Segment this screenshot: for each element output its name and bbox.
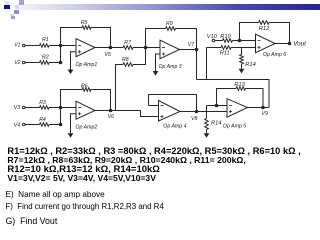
node junction R1/R2 [59,44,63,48]
wire V4 to R4 [25,124,39,126]
resistor R13 [236,87,245,91]
label V8 [191,116,197,122]
wire op-amp U2 noninverting input to ground [71,114,77,133]
svg-text:Op Amp 6: Op Amp 6 [263,52,286,58]
node V8 [195,110,199,114]
ground op-amp U2 [68,133,74,138]
op-amp U6 [256,34,276,53]
wire node V5 to R7 [111,47,124,49]
wire V6 riser to R8 [116,65,124,111]
svg-text:V3: V3 [14,105,20,111]
wire junction R4 up to junction R3 [60,108,62,125]
wire R1 to op-amp U1 inverting input [49,45,76,47]
ground R14 upper [239,69,245,74]
node junction R4 [59,123,63,127]
ground R14 lower [204,133,210,138]
label V4 [14,123,20,129]
wire junction up to feedback rail R5 [61,28,83,46]
svg-text:R4: R4 [39,117,46,123]
op-amp U3 [160,40,180,59]
wire R14 lower to ground [206,130,208,134]
label R9 [166,21,173,27]
label Op Amp 4 [163,123,186,129]
label R12 [259,26,270,32]
terminal V2 [23,61,26,64]
resistor R10 [223,39,233,43]
wire R12 to node Vout [269,23,290,44]
op-amp U5 [227,99,248,118]
wire R5 to output node V5 [91,28,111,48]
label R10 [220,34,231,40]
node junction R2 [59,61,63,65]
svg-text:R14: R14 [245,62,255,68]
svg-text:R5: R5 [81,20,88,26]
resistor R7 [123,46,133,50]
resistor R1 [40,44,49,48]
wire R2 to junction [49,62,61,64]
node V9 [261,106,265,110]
wire op-amp U2 output to node V6 [95,110,111,112]
terminal V4 [23,123,26,126]
resistor R8 [123,63,133,67]
label V6 [108,114,114,120]
label V3 [14,105,20,111]
wire op-amp U3 output to node V7 [180,49,197,51]
wire feedback rail op-amp U4 [149,95,197,112]
svg-text:R12: R12 [259,26,270,32]
label R13 [234,82,245,88]
wire R13 to node V9 [246,89,264,108]
wire R6 to output node V6 [91,90,111,111]
wire summing junction up to feedback rail R9 [146,29,166,48]
svg-text:Op Amp 4: Op Amp 4 [163,123,186,129]
node junction R3/R4 [59,106,63,110]
wire R11 to noninverting input [231,47,256,49]
node V6 [109,109,113,113]
svg-text:R2: R2 [42,55,49,61]
wire R11 row to op-amp U6 noninverting input [207,47,222,49]
svg-text:R8: R8 [122,57,129,63]
wire V2 to R2 [25,62,39,64]
terminal V3 [23,106,26,109]
wire junction up to feedback rail R6 [61,90,83,108]
wire V10 to R10 [215,40,223,42]
svg-text:R7: R7 [124,40,132,46]
svg-text:R11: R11 [220,51,230,57]
label V5 [105,52,111,58]
label Op Amp 6 [263,52,286,58]
header gradient bar decoration [19,4,320,10]
wire inverting junction down to R14 [206,106,208,119]
svg-text:V8: V8 [191,116,197,122]
resistor R3 [40,106,49,110]
resistor R4 [40,123,49,127]
svg-text:V4: V4 [14,123,20,129]
svg-text:R6: R6 [81,84,88,90]
svg-text:V9: V9 [262,111,268,117]
svg-text:Op Amp 5: Op Amp 5 [223,123,246,129]
svg-text:Vout: Vout [293,41,306,48]
wire junction R2 up to junction R1 [60,46,62,63]
label Op Amp 5 [223,123,246,129]
svg-text:Op Amp 3: Op Amp 3 [159,64,182,70]
ground op-amp U3 [153,71,159,76]
label R11 [220,51,230,57]
label V2 [14,60,20,66]
wire op-amp U3 noninverting input to ground [156,54,161,71]
wire riser to R11 row [206,48,208,80]
wire feedback rail R13 [217,89,237,106]
svg-text:Op Amp2: Op Amp2 [76,124,98,130]
label R1 [42,37,49,43]
header pixel squares decoration [5,1,9,5]
node V7 [195,48,199,52]
label Op Amp 3 [159,64,182,70]
resistor R12 [259,21,270,25]
label Vout [293,41,306,48]
label R6 [81,84,88,90]
resistor R14 upper [240,55,244,64]
label R4 [39,117,46,123]
wire junction up to feedback rail R12 [240,23,259,41]
label R8 [122,57,129,63]
resistor R11 [221,46,231,50]
wire R8 up to summing junction U3 [133,48,146,65]
terminal V10 [212,39,215,42]
wire op-amp U6 output to node Vout [275,43,290,45]
label R14 upper [245,62,255,68]
wire op-amp U1 output to node V5 [95,47,111,49]
wire V3 to R3 [25,107,39,109]
svg-text:Op Amp1: Op Amp1 [76,62,98,68]
resistor R2 [40,61,49,65]
wire R14 upper to ground [241,64,243,69]
svg-text:V1: V1 [14,43,20,49]
wire node V8 to op-amp U5 noninverting input [197,111,228,113]
label V10 [207,34,218,40]
label R14 lower [211,121,221,127]
label V7 [188,42,195,48]
resistor R6 [82,88,91,92]
wire op-amp U1 noninverting input to ground [71,52,77,70]
wire op-amp U5 inverting row [207,105,228,107]
svg-text:R14: R14 [211,121,221,127]
svg-text:R13: R13 [234,82,245,88]
terminal V1 [23,44,26,47]
svg-text:R10: R10 [220,34,231,40]
wire R9 to node V7 [176,29,197,50]
svg-text:V5: V5 [105,52,111,58]
svg-text:V6: V6 [108,114,114,120]
label V9 [262,111,268,117]
node junction R10/R12 [238,39,242,43]
wire node V9 riser to V7 feed [197,50,270,108]
label R5 [81,20,88,26]
wire R14 upper junction down [241,48,243,55]
svg-text:R9: R9 [166,21,173,27]
svg-text:V2: V2 [14,60,20,66]
svg-text:V7: V7 [188,42,195,48]
node Vout [288,42,292,46]
op-amp U2 [76,101,95,119]
wire R10 to op-amp U6 inverting input [233,40,256,42]
resistor R5 [82,26,91,30]
op-amp U1 [76,39,95,57]
wire R4 to junction [49,124,61,126]
label R7 [124,40,132,46]
resistor R14 lower [205,119,209,130]
node V5 [109,46,113,50]
wire R3 to op-amp U2 inverting input [49,107,76,109]
svg-text:R3: R3 [39,100,46,106]
wire op-amp U5 output to node V9 [248,107,270,109]
wire V1 to R1 [25,45,39,47]
op-amp U4 [159,101,181,122]
label Op Amp1 [76,62,98,68]
wire op-amp U4 output to node V8 [180,111,197,113]
svg-text:R1: R1 [42,37,49,43]
label V1 [14,43,20,49]
ground op-amp U1 [68,70,74,75]
svg-text:V10: V10 [207,34,218,40]
wire node V6 to op-amp U4 noninverting input [111,111,159,117]
wire rail to op-amp U4 inverting input [149,105,159,107]
resistor R9 [166,27,176,31]
label R2 [42,55,49,61]
node summing junction U3 [144,46,148,50]
node inverting junction U5 [215,104,219,108]
label Op Amp2 [76,124,98,130]
label R3 [39,100,46,106]
wire R7 to op-amp U3 inverting input [133,47,160,49]
